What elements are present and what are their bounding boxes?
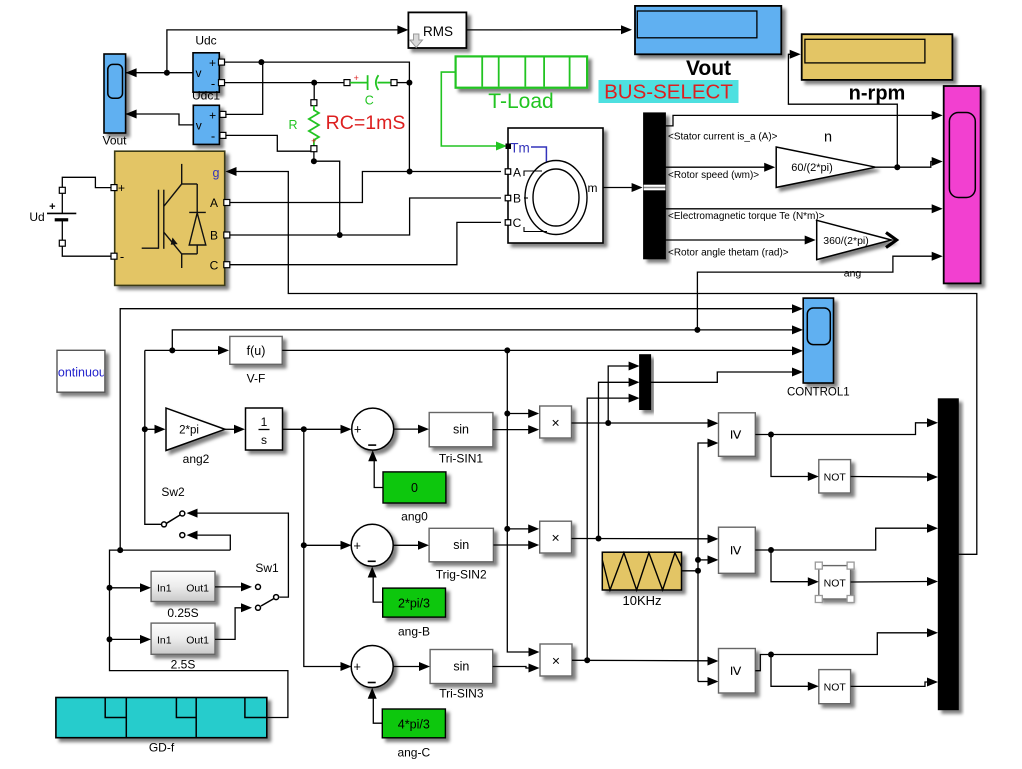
svg-text:R: R: [288, 118, 297, 132]
gain 60/(2*pi): [776, 147, 876, 187]
label Tri-SIN3: [439, 687, 484, 701]
wire GDf to Sw2 in2: [187, 531, 231, 551]
wire 2.5S out to Sw1 in2: [215, 603, 252, 639]
svg-text:V-F: V-F: [247, 372, 266, 386]
svg-text:+: +: [354, 422, 362, 437]
svg-text:n-rpm: n-rpm: [849, 83, 906, 105]
wire GDf to 0.25S In1: [110, 583, 152, 592]
svg-text:+: +: [353, 538, 361, 553]
svg-text:Udc1: Udc1: [192, 89, 220, 103]
wire relational1 output: [755, 418, 938, 434]
label Sw1: [255, 561, 279, 575]
sum Sum3: [351, 646, 393, 688]
wire theta vertical: [304, 429, 352, 671]
svg-text:0: 0: [411, 481, 418, 495]
wire 0.25S out to Sw1 in1: [215, 582, 252, 591]
svg-text:0.25S: 0.25S: [167, 606, 198, 620]
label 10KHz: [622, 593, 661, 608]
label Sw2: [161, 485, 185, 499]
svg-text:BUS-SELECT: BUS-SELECT: [604, 81, 733, 104]
scope Vout: [102, 54, 127, 148]
svg-text:Continuous: Continuous: [49, 366, 112, 380]
port R bottom: [311, 146, 317, 152]
subsystem GD-f: [56, 698, 267, 738]
wire Udc1+ riser: [225, 64, 262, 114]
block Tri-SIN1: [429, 413, 493, 447]
sum Sum1: [352, 408, 394, 450]
junction ang branch: [694, 327, 700, 333]
svg-text:<Electromagnetic torque Te (N*: <Electromagnetic torque Te (N*m)>: [668, 211, 825, 222]
wire relational3 output: [755, 628, 938, 670]
svg-text:-: -: [120, 249, 124, 264]
display Vout: [635, 6, 781, 54]
wire freq up to CONTROL1 in2: [172, 325, 803, 350]
svg-text:A: A: [513, 166, 521, 180]
wire NOT1 to mux: [851, 473, 938, 482]
junction fu to product2: [504, 526, 510, 532]
svg-text:×: ×: [552, 652, 560, 668]
logical operator NOT3: [819, 670, 851, 704]
svg-text:In1: In1: [157, 635, 172, 647]
svg-text:RMS: RMS: [423, 24, 453, 39]
label 0.25S: [167, 606, 198, 620]
label ang-C: [397, 746, 430, 760]
wire gate feedback to inverter g: [228, 172, 977, 555]
wire Udc- to capacitor: [225, 82, 345, 84]
wire theta to sum2: [304, 541, 352, 550]
voltage measurement Udc1: [192, 89, 220, 145]
wire T-Load to motor Tm: [441, 72, 507, 150]
source T-Load: [456, 56, 587, 113]
junction GDf to 0.25S: [107, 585, 113, 591]
wire RMS output to Vout display: [466, 25, 632, 34]
wire freq to 2pi gain: [145, 425, 166, 434]
svg-text:Out1: Out1: [186, 583, 209, 595]
label ang: [844, 268, 862, 280]
wire junction up to RMS input: [167, 25, 409, 72]
product P1: [540, 406, 572, 438]
voltage measurement Udc: [193, 34, 219, 93]
svg-text:Tri-SIN3: Tri-SIN3: [439, 687, 484, 701]
wire ang0 to sum1: [368, 450, 383, 487]
junction carrier source: [695, 568, 701, 574]
product P3: [540, 644, 572, 676]
mux gate signals: [938, 399, 958, 710]
svg-text:NOT: NOT: [824, 682, 847, 694]
wire riser product2 to mux: [599, 378, 640, 539]
svg-text:sin: sin: [453, 660, 469, 674]
arrow into inverter g: [226, 167, 237, 176]
wire carrier to relational2: [698, 555, 719, 564]
bus selector bar: [644, 113, 666, 259]
wire sum1 to sin1: [394, 425, 429, 434]
label 2.5S: [171, 658, 196, 672]
block RMS: [408, 12, 466, 48]
constant ang0: [383, 472, 446, 503]
port inverter +: [111, 185, 117, 191]
svg-text:+: +: [49, 201, 55, 213]
junction theta distribution: [301, 426, 307, 432]
svg-text:NOT: NOT: [824, 471, 847, 483]
svg-text:<Stator current is_a (A)>: <Stator current is_a (A)>: [668, 132, 778, 143]
svg-text:×: ×: [552, 414, 560, 430]
junction fu distribution: [504, 347, 510, 353]
label n: [824, 130, 832, 146]
wire sum2 to sin2: [393, 541, 429, 550]
wire riser product3 to mux: [587, 394, 639, 661]
junction carrier to relational2: [695, 557, 701, 563]
constant ang-C: [382, 709, 445, 738]
svg-text:Trig-SIN2: Trig-SIN2: [436, 568, 487, 582]
port inverter B: [224, 232, 230, 238]
wire NOT3 to mux: [851, 678, 938, 687]
svg-text:g: g: [213, 166, 220, 180]
dc source Ud: [29, 193, 76, 241]
logical operator NOT2: [815, 562, 854, 602]
svg-text:Vout: Vout: [102, 134, 127, 148]
svg-text:Vout: Vout: [686, 57, 731, 80]
manual switch Sw1: [256, 584, 279, 610]
svg-text:ang: ang: [844, 268, 862, 280]
label Vout bold: [686, 57, 731, 80]
label ang0: [401, 510, 428, 524]
junction product1 riser: [605, 420, 611, 426]
port motor B: [505, 195, 511, 201]
label n-rpm bold: [849, 83, 906, 105]
source 10KHz: [602, 552, 681, 590]
wire bus out3 to scope input3: [665, 204, 942, 213]
svg-text:×: ×: [552, 529, 560, 545]
wire Ud+ to inverter +: [62, 177, 111, 187]
port motor A: [505, 169, 511, 175]
svg-text:ang-B: ang-B: [398, 625, 430, 639]
svg-text:+: +: [209, 56, 216, 70]
wire bus out4 to gain2: [665, 236, 815, 245]
wire carrier vertical: [698, 439, 719, 682]
wire relational3 to NOT3: [771, 655, 819, 691]
wire phase B inverter to motor: [230, 198, 501, 235]
junction Udc1+ riser: [258, 59, 264, 65]
svg-text:sin: sin: [453, 538, 469, 552]
junction theta to sum2: [301, 542, 307, 548]
signal label rotor angle: [668, 247, 789, 258]
label Tri-SIN1: [439, 452, 484, 466]
block Trig-SIN2: [429, 528, 493, 562]
junction freq at f(u) line: [169, 347, 175, 353]
wire Sw1 pole to Sw2 in1: [187, 509, 289, 597]
wire relational1 to NOT1: [771, 435, 819, 482]
port motor C: [505, 220, 511, 226]
junction C right on A-node vertical: [406, 80, 412, 86]
wire NOT2 to mux: [851, 577, 938, 586]
label GD-f: [149, 741, 175, 755]
signal label rotor speed: [668, 170, 759, 181]
svg-text:+: +: [209, 109, 216, 123]
wire motor m to bus selector: [603, 183, 643, 192]
svg-text:ang0: ang0: [401, 510, 428, 524]
junction below R: [311, 158, 317, 164]
wire Udc1-v to Vout scope: [126, 110, 194, 125]
relational operator >=3: [719, 649, 756, 694]
svg-text:2.5S: 2.5S: [171, 658, 196, 672]
junction freq at 2pi: [142, 426, 148, 432]
svg-text:C: C: [513, 216, 522, 230]
label V-F: [247, 372, 266, 386]
wire carrier to relational3: [698, 677, 719, 686]
wire ang-C to sum3: [368, 688, 383, 724]
wire product3 output to relational3: [572, 657, 719, 666]
svg-text:<Rotor speed (wm)>: <Rotor speed (wm)>: [668, 170, 759, 181]
label ang-B: [398, 625, 430, 639]
label RC=1mS: [326, 112, 406, 134]
wire fu to product2: [507, 524, 539, 533]
wire 10KHz output: [682, 570, 699, 572]
wire Ud- to inverter -: [62, 246, 111, 256]
svg-text:1: 1: [261, 415, 268, 429]
sum Sum2: [351, 524, 393, 566]
junction product3 riser: [584, 657, 590, 663]
wire R bottom to phase B node: [314, 161, 340, 235]
svg-text:Sw1: Sw1: [255, 561, 279, 575]
svg-text:≥: ≥: [727, 546, 746, 555]
svg-text:≥: ≥: [727, 666, 746, 675]
svg-text:+: +: [354, 73, 359, 83]
integrator 1/s: [246, 408, 283, 450]
display n-rpm: [802, 34, 953, 80]
port inverter C: [224, 262, 230, 268]
svg-text:A: A: [210, 196, 218, 210]
svg-text:+: +: [311, 136, 316, 146]
junction phase A with Udc+ tap: [407, 169, 413, 175]
wire GDf up to CONTROL1 in1: [120, 304, 803, 550]
subsystem 0.25S: [151, 571, 215, 601]
svg-text:10KHz: 10KHz: [622, 593, 661, 608]
wire gain1 output to scope input2: [876, 157, 943, 167]
inverter IGBT symbol: [142, 164, 206, 268]
svg-text:v: v: [196, 66, 202, 80]
svg-text:C: C: [210, 258, 219, 272]
junction gain1 output: [894, 164, 900, 170]
port R top: [311, 100, 317, 106]
wire Sw2 pole to freq net: [145, 523, 161, 525]
port C left: [344, 80, 350, 86]
svg-text:v: v: [196, 119, 202, 133]
svg-text:Out1: Out1: [186, 635, 209, 647]
wire sin3 to product3: [493, 664, 540, 673]
gain 2*pi ang2: [166, 408, 225, 450]
svg-text:m: m: [588, 181, 598, 195]
port C right: [391, 80, 397, 86]
junction GDf to 2.5S: [107, 636, 113, 642]
svg-text:-: -: [211, 129, 215, 144]
wire GDf output loop: [110, 550, 288, 717]
scope CONTROL1: [803, 298, 833, 383]
svg-text:+: +: [353, 659, 361, 674]
port Udc -: [219, 80, 225, 86]
wire relational2 to NOT2: [771, 550, 819, 586]
svg-text:+: +: [118, 181, 125, 195]
wire R bottom down: [313, 152, 315, 162]
port Udc1 -: [220, 132, 226, 138]
wire product1 output to relational1: [572, 419, 719, 428]
wire integrator to sum1: [283, 425, 352, 434]
svg-text:<Rotor angle thetam (rad)>: <Rotor angle thetam (rad)>: [668, 247, 789, 258]
inverter pin labels: [118, 166, 220, 272]
port inverter -: [111, 253, 117, 259]
wire R top lead: [313, 83, 315, 100]
junction relational2 output: [768, 547, 774, 553]
junction R top: [311, 80, 317, 86]
svg-text:C: C: [365, 94, 374, 108]
wire product2 output to relational2: [572, 534, 719, 543]
wire riser product1 to mux: [608, 362, 639, 424]
asynchronous machine block: [508, 128, 603, 243]
wire sin1 to product1: [493, 425, 539, 434]
signal label electromagnetic torque: [668, 211, 825, 222]
wire C right to A node: [397, 82, 409, 84]
svg-text:Tm: Tm: [510, 141, 530, 156]
svg-text:In1: In1: [157, 583, 172, 595]
junction on Vout wire: [164, 70, 170, 76]
unconnected output chevron: [886, 233, 897, 248]
wire bus out2 to gain: [665, 163, 775, 172]
subsystem 2.5S: [151, 623, 215, 654]
svg-text:ang-C: ang-C: [397, 746, 430, 760]
svg-text:≥: ≥: [727, 430, 746, 439]
svg-text:Sw2: Sw2: [161, 485, 185, 499]
svg-text:s: s: [261, 433, 267, 447]
junction GDf to CONTROL1 riser: [117, 547, 123, 553]
powergui Continuous: [49, 350, 112, 392]
junction fu to product1: [504, 411, 510, 417]
label CONTROL1: [787, 387, 850, 399]
manual switch Sw2: [162, 511, 185, 538]
relational operator >=2: [719, 527, 756, 573]
svg-text:Ud: Ud: [29, 210, 44, 224]
svg-text:f(u): f(u): [247, 344, 266, 358]
wire mux to CONTROL1 in4: [651, 368, 803, 383]
wire freq vertical: [145, 350, 161, 524]
wire sum3 to sin3: [393, 662, 430, 671]
scope magenta: [944, 86, 981, 283]
svg-text:360/(2*pi): 360/(2*pi): [823, 235, 869, 247]
port Udc1 +: [220, 111, 226, 117]
svg-text:CONTROL1: CONTROL1: [787, 387, 850, 399]
product P2: [540, 521, 572, 553]
wire GDf to 2.5S In1: [110, 635, 152, 644]
gain 360/(2*pi): [817, 220, 892, 259]
block Tri-SIN3: [430, 650, 493, 684]
svg-text:B: B: [210, 229, 218, 243]
wire ang to scope input4: [697, 252, 942, 330]
svg-text:sin: sin: [453, 423, 469, 437]
wire phase A inverter to motor: [230, 172, 501, 203]
wire fu to product1: [507, 409, 539, 418]
wire ang-B to sum2: [368, 567, 383, 603]
inverter bridge block: [115, 151, 225, 285]
wire bus out1 to scope input1: [665, 111, 942, 126]
wire Udc+ to phase A node: [225, 62, 410, 171]
wire 2pi to integrator: [225, 425, 245, 434]
annotation BUS-SELECT: [599, 80, 739, 104]
resistor R: [288, 106, 318, 147]
relational operator >=1: [719, 413, 756, 457]
svg-text:GD-f: GD-f: [149, 741, 175, 755]
svg-text:Udc: Udc: [195, 34, 216, 48]
junction relational3 output: [768, 652, 774, 658]
wire phase C inverter to motor: [230, 222, 501, 264]
junction on phase B wire: [337, 232, 343, 238]
junction product2 riser: [596, 536, 602, 542]
port Udc +: [219, 59, 225, 65]
wire Udc-v to Vout scope: [126, 68, 193, 77]
svg-text:RC=1mS: RC=1mS: [326, 112, 406, 134]
wire fu output long to CONTROL1 in3: [282, 346, 803, 355]
svg-text:n: n: [824, 130, 832, 146]
block f(u) V-F: [230, 336, 282, 364]
constant ang-B: [383, 588, 446, 617]
svg-text:ang2: ang2: [183, 452, 210, 466]
port Ud -: [59, 240, 65, 246]
capacitor C: [350, 73, 391, 108]
wire gain1 to n-rpm display: [788, 50, 897, 167]
svg-text:NOT: NOT: [824, 577, 847, 589]
mux reference signals: [640, 355, 651, 410]
svg-text:2*pi: 2*pi: [179, 425, 199, 437]
junction relational1 output: [768, 432, 774, 438]
wire fu vertical distribution: [507, 350, 539, 656]
svg-text:2*pi/3: 2*pi/3: [398, 597, 430, 611]
svg-text:60/(2*pi): 60/(2*pi): [791, 162, 833, 174]
label Trig-SIN2: [436, 568, 487, 582]
wire Udc1- to R bottom: [226, 135, 311, 151]
wire relational2 output: [755, 524, 938, 550]
svg-text:Tri-SIN1: Tri-SIN1: [439, 452, 484, 466]
signal label stator current: [668, 132, 778, 143]
port motor Tm: [506, 144, 512, 150]
svg-text:T-Load: T-Load: [488, 90, 553, 113]
logical operator NOT1: [819, 460, 851, 493]
label ang2: [183, 452, 210, 466]
port Ud +: [59, 187, 65, 193]
svg-text:B: B: [513, 192, 521, 206]
wire sin2 to product2: [493, 541, 539, 550]
svg-text:4*pi/3: 4*pi/3: [398, 718, 430, 732]
wire freq to f(u): [145, 346, 229, 355]
port inverter A: [224, 200, 230, 206]
